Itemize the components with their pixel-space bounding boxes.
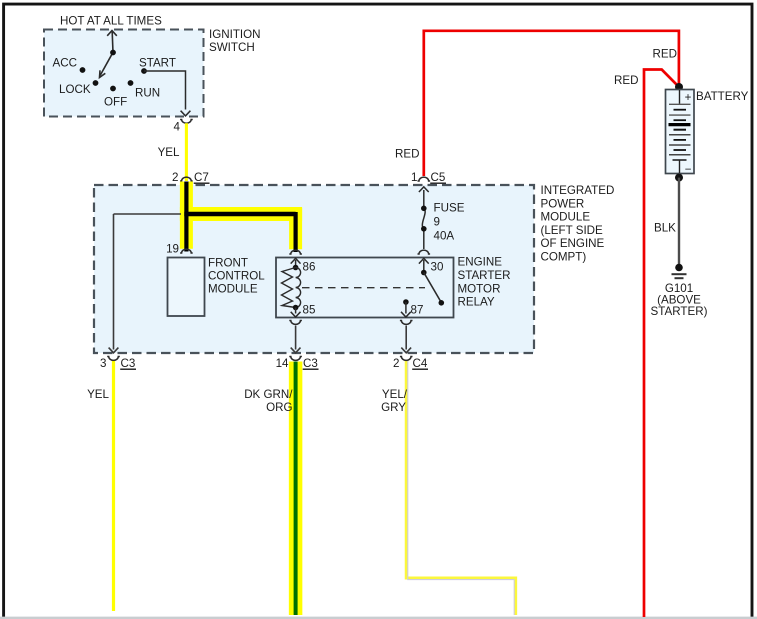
switch arm: [100, 52, 114, 77]
svg-text:INTEGRATED: INTEGRATED: [541, 184, 615, 197]
relay pin 30: [419, 258, 429, 271]
svg-text:C3: C3: [303, 357, 318, 370]
hot feed arrow: [107, 31, 117, 53]
relay pin 85: [293, 305, 299, 311]
svg-text:85: 85: [303, 304, 316, 317]
svg-text:C3: C3: [121, 357, 136, 370]
fuse 9 40A: [419, 187, 429, 249]
connector bump below relay pin 85: [289, 321, 302, 325]
svg-text:86: 86: [303, 261, 316, 274]
svg-text:OF ENGINE: OF ENGINE: [541, 237, 605, 250]
relay actuating link: [302, 287, 425, 289]
YEL wire pin 3 down: [112, 360, 115, 611]
connector bump below relay pin 87: [400, 321, 413, 325]
svg-text:RED: RED: [395, 148, 419, 161]
svg-text:C7: C7: [194, 171, 209, 184]
svg-text:1: 1: [411, 171, 417, 184]
wire relay 85 to pin 14: [291, 326, 301, 353]
svg-text:MOTOR: MOTOR: [458, 283, 501, 296]
YEL trunk core wire: [184, 182, 295, 253]
svg-text:4: 4: [174, 121, 181, 134]
svg-text:POWER: POWER: [541, 197, 585, 210]
integrated power module box: [94, 185, 534, 353]
contact OFF: [110, 86, 116, 92]
wire branch to pin 3: [109, 214, 181, 353]
svg-text:YEL: YEL: [87, 388, 109, 401]
svg-text:ORG: ORG: [266, 401, 292, 414]
svg-text:14: 14: [276, 357, 289, 370]
svg-text:(LEFT SIDE: (LEFT SIDE: [541, 224, 604, 237]
YEL highlighted trunk (thick): [180, 182, 302, 250]
svg-text:GRY: GRY: [381, 401, 406, 414]
svg-text:YEL: YEL: [158, 146, 180, 159]
svg-text:START: START: [139, 57, 176, 70]
switch pivot dot: [110, 50, 116, 56]
relay coil: [296, 268, 301, 308]
svg-text:40A: 40A: [434, 230, 455, 243]
svg-text:ENGINE: ENGINE: [458, 256, 503, 269]
front control module: [168, 258, 205, 317]
svg-text:C4: C4: [413, 357, 428, 370]
engine starter motor relay box: [276, 258, 454, 318]
svg-text:BLK: BLK: [654, 222, 676, 235]
svg-text:IGNITION: IGNITION: [209, 28, 261, 41]
bottom page edge: [0, 617, 757, 619]
svg-text:STARTER: STARTER: [458, 269, 511, 282]
svg-text:87: 87: [411, 304, 424, 317]
svg-text:ACC: ACC: [53, 57, 77, 70]
svg-text:RED: RED: [653, 48, 677, 61]
svg-text:RELAY: RELAY: [458, 296, 495, 309]
relay pin 87: [403, 299, 409, 305]
wire START to pin 4: [144, 71, 190, 116]
svg-text:CONTROL: CONTROL: [208, 270, 265, 283]
svg-text:SWITCH: SWITCH: [209, 41, 255, 54]
svg-text:19: 19: [166, 243, 179, 256]
wire relay 87 to pin 2: [401, 326, 411, 353]
svg-text:FRONT: FRONT: [208, 257, 248, 270]
svg-text:OFF: OFF: [104, 96, 127, 109]
svg-text:DK GRN/: DK GRN/: [244, 388, 293, 401]
connector bump above relay pin 86: [289, 250, 302, 254]
RED wire C5 to battery: [424, 31, 679, 176]
contact RUN: [128, 80, 134, 86]
ignition switch box: [44, 30, 204, 117]
contact START: [141, 68, 147, 74]
svg-text:FUSE: FUSE: [434, 202, 465, 215]
svg-text:MODULE: MODULE: [208, 283, 258, 296]
relay blade: [424, 273, 442, 303]
YEL wire ignition to C7: [185, 123, 188, 181]
svg-text:−: −: [685, 163, 692, 176]
svg-text:RUN: RUN: [135, 87, 160, 100]
svg-text:2: 2: [393, 357, 399, 370]
svg-text:3: 3: [100, 357, 106, 370]
svg-text:9: 9: [434, 216, 440, 229]
svg-text:HOT AT ALL TIMES: HOT AT ALL TIMES: [60, 15, 162, 28]
svg-text:COMPT): COMPT): [541, 251, 587, 264]
svg-text:+: +: [685, 91, 692, 104]
svg-text:STARTER): STARTER): [651, 305, 708, 318]
relay pin 86: [291, 258, 301, 268]
svg-text:MODULE: MODULE: [541, 211, 591, 224]
svg-text:RED: RED: [614, 74, 638, 87]
YEL/GRY wire pin 2 down: [406, 360, 516, 615]
battery: [675, 83, 683, 91]
RED wire battery to starter: [644, 70, 678, 618]
svg-text:C5: C5: [431, 171, 446, 184]
connector bump above relay pin 30: [418, 250, 431, 254]
svg-text:2: 2: [172, 171, 178, 184]
svg-text:LOCK: LOCK: [59, 83, 91, 96]
svg-text:BATTERY: BATTERY: [696, 90, 749, 103]
svg-text:YEL/: YEL/: [382, 388, 408, 401]
ground G101: [675, 264, 683, 272]
BLK wire: [678, 178, 680, 266]
svg-text:30: 30: [431, 261, 444, 274]
DK GRN/ORG wire pin 14 down: [289, 362, 303, 616]
contact LOCK: [93, 80, 99, 86]
contact ACC: [80, 67, 86, 73]
